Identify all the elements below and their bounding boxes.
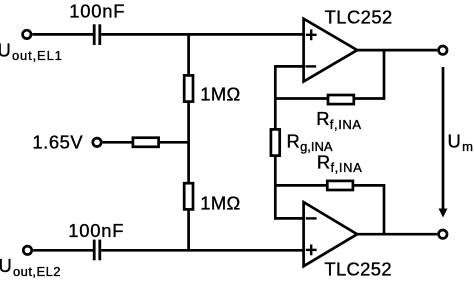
U1 plus input symbol: [306, 29, 317, 40]
wire U2 output: [357, 233, 437, 236]
svg-text:TLC252: TLC252: [324, 259, 392, 280]
svg-text:TLC252: TLC252: [325, 7, 393, 28]
U2 minus input symbol: [306, 217, 317, 219]
resistor Rg,INA: [271, 129, 280, 155]
resistor Rf,INA top: [328, 95, 354, 104]
resistor R2 1M: [184, 183, 193, 209]
terminal 1.65V: [93, 138, 101, 146]
terminal output top: [439, 46, 447, 54]
resistor R1 1M: [184, 75, 193, 101]
wire: [101, 249, 304, 252]
resistor R3 1M: [133, 138, 159, 147]
wire U2 inverting input: [275, 217, 304, 220]
U2 plus input symbol: [306, 245, 317, 256]
wire U1 output: [357, 49, 437, 52]
wire: [159, 141, 189, 144]
resistor Rf,INA bottom: [327, 181, 353, 190]
wire feedback top horizontal: [275, 97, 328, 100]
wire feedback top corner: [354, 50, 384, 99]
wire bus lower: [274, 156, 277, 220]
terminal U_out,EL2: [23, 246, 31, 254]
wire U1 inverting input: [275, 65, 304, 68]
wire: [33, 249, 93, 252]
capacitor C2 100nF: [94, 240, 100, 261]
wire: [32, 33, 93, 36]
wire: [103, 141, 133, 144]
svg-text:1MΩ: 1MΩ: [200, 83, 240, 104]
wire: [187, 209, 190, 250]
wire feedback bottom corner: [353, 185, 384, 234]
terminal output bottom: [439, 230, 447, 238]
op-amp U2 TLC252: [304, 202, 358, 266]
svg-text:1MΩ: 1MΩ: [200, 193, 240, 214]
wire: [187, 102, 190, 183]
Um arrowhead: [439, 209, 448, 218]
capacitor C1 100nF: [94, 24, 100, 45]
U1 minus input symbol: [305, 65, 316, 67]
terminal U_out,EL1: [23, 30, 31, 38]
node A top junction: [187, 34, 190, 75]
svg-text:100nF: 100nF: [69, 0, 125, 21]
svg-text:1.65V: 1.65V: [32, 131, 83, 152]
wire: [101, 33, 304, 36]
Um arrow shaft: [442, 67, 445, 210]
svg-text:100nF: 100nF: [68, 220, 124, 241]
wire bus upper: [274, 65, 277, 130]
op-amp U1 TLC252: [304, 19, 358, 82]
wire feedback bottom horizontal: [275, 184, 327, 187]
